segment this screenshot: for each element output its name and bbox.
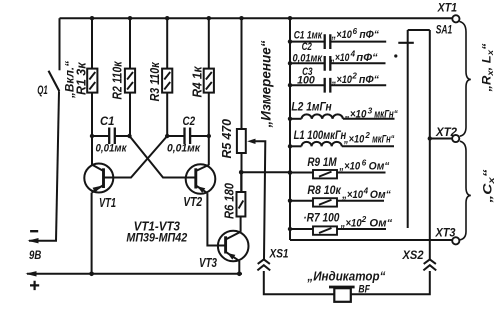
svg-text:XS2: XS2 xyxy=(402,248,424,262)
svg-text:L1 100мкГн: L1 100мкГн xyxy=(294,130,347,142)
svg-text:9В: 9В xyxy=(29,250,41,262)
svg-text:„Индикатор“: „Индикатор“ xyxy=(306,270,386,284)
svg-text:пФ“: пФ“ xyxy=(356,52,378,64)
svg-text:„×10: „×10 xyxy=(344,109,367,121)
svg-text:2: 2 xyxy=(364,131,370,140)
svg-text:XT3: XT3 xyxy=(435,226,456,240)
svg-text:пФ“: пФ“ xyxy=(359,74,379,86)
svg-text:Ом“: Ом“ xyxy=(370,189,391,201)
svg-text:0,01мк: 0,01мк xyxy=(293,52,324,64)
svg-text:C2: C2 xyxy=(302,41,312,53)
svg-text:C1 1мк: C1 1мк xyxy=(294,29,323,41)
svg-text:R2 110к: R2 110к xyxy=(110,61,124,100)
svg-text:C1: C1 xyxy=(100,114,115,128)
svg-text:R8 10к: R8 10к xyxy=(307,185,341,197)
svg-text:„×10: „×10 xyxy=(330,52,350,64)
svg-text:R3 110к: R3 110к xyxy=(148,62,162,102)
svg-text:„×10: „×10 xyxy=(343,133,365,145)
svg-text:„Измерение“: „Измерение“ xyxy=(259,40,274,128)
svg-text:4: 4 xyxy=(363,187,369,196)
svg-text:100: 100 xyxy=(297,74,316,86)
svg-text:SA1: SA1 xyxy=(436,23,453,37)
svg-text:L2 1мГн: L2 1мГн xyxy=(291,102,331,114)
svg-text:XT2: XT2 xyxy=(435,125,457,139)
svg-text:„×10: „×10 xyxy=(341,189,363,201)
svg-text:R9 1М: R9 1М xyxy=(307,157,337,169)
svg-text:·R7 100: ·R7 100 xyxy=(303,213,340,225)
svg-text:6: 6 xyxy=(353,27,358,36)
svg-text:„×10: „×10 xyxy=(339,161,361,173)
svg-text:6: 6 xyxy=(362,158,367,167)
svg-text:XS1: XS1 xyxy=(269,247,289,261)
svg-text:R5 470: R5 470 xyxy=(220,119,234,159)
svg-text:R1 3к: R1 3к xyxy=(75,62,89,95)
svg-text:Ом“: Ом“ xyxy=(369,161,390,173)
svg-text:0,01мк: 0,01мк xyxy=(167,143,201,155)
svg-text:Ом“: Ом“ xyxy=(369,217,392,229)
svg-text:4: 4 xyxy=(350,50,356,59)
svg-text:2: 2 xyxy=(361,215,367,224)
svg-text:VT2: VT2 xyxy=(183,194,203,209)
svg-text:C2: C2 xyxy=(183,114,196,128)
svg-text:3: 3 xyxy=(368,106,373,115)
svg-text:„×10: „×10 xyxy=(331,29,353,41)
svg-text:МП39-МП42: МП39-МП42 xyxy=(126,230,187,244)
svg-text:VT1: VT1 xyxy=(99,195,116,210)
svg-text:Q1: Q1 xyxy=(37,85,48,97)
svg-text:BF: BF xyxy=(358,283,370,295)
svg-text:пФ“: пФ“ xyxy=(359,29,379,41)
svg-text:мкГн“: мкГн“ xyxy=(374,109,398,121)
svg-text:„×10: „×10 xyxy=(340,217,362,229)
svg-text:„Rх, Lх“: „Rх, Lх“ xyxy=(481,43,495,92)
svg-text:VT3: VT3 xyxy=(199,255,218,270)
svg-text:мкГн“: мкГн“ xyxy=(372,133,395,145)
svg-text:„Cх“: „Cх“ xyxy=(483,169,497,204)
svg-text:0,01мк: 0,01мк xyxy=(96,143,128,155)
svg-text:R4 1к: R4 1к xyxy=(190,66,204,98)
svg-text:2: 2 xyxy=(351,72,357,81)
svg-text:„×10: „×10 xyxy=(331,74,353,86)
svg-text:XT1: XT1 xyxy=(437,1,458,15)
svg-text:R6 180: R6 180 xyxy=(222,183,236,219)
